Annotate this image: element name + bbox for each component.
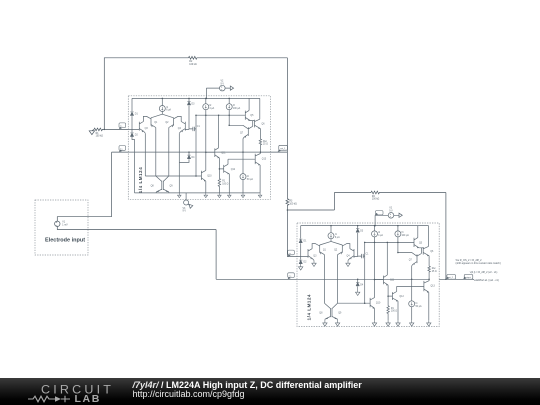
- svg-text:V1: V1: [62, 222, 66, 224]
- svg-text:100 kΩ: 100 kΩ: [289, 203, 297, 205]
- svg-text:(shift appears in this resisto: (shift appears in this resistor ratio ma…: [456, 262, 501, 265]
- svg-text:9 V: 9 V: [183, 211, 187, 213]
- svg-text:R2: R2: [189, 61, 193, 63]
- svg-text:100 kΩ: 100 kΩ: [372, 199, 380, 201]
- svg-text:out_1: out_1: [280, 147, 286, 150]
- svg-text:R1: R1: [96, 133, 100, 135]
- svg-text:output: output: [465, 276, 471, 279]
- svg-text:100 kΩ: 100 kΩ: [189, 64, 197, 66]
- svg-text:V3: V3: [183, 208, 187, 210]
- svg-text:out_2: out_2: [448, 276, 454, 279]
- svg-text:R4: R4: [372, 196, 376, 198]
- svg-text:v(0,t) = R_diff_2 (v2 - v1): v(0,t) = R_diff_2 (v2 - v1): [470, 271, 498, 274]
- svg-text:voltdiffref a1 | (a2 - v1): voltdiffref a1 | (a2 - v1): [474, 279, 499, 282]
- svg-text:R3: R3: [289, 201, 293, 203]
- svg-text:Electrode input: Electrode input: [45, 238, 85, 244]
- svg-text:1 mV: 1 mV: [62, 225, 68, 227]
- svg-text:100 kΩ: 100 kΩ: [96, 136, 104, 138]
